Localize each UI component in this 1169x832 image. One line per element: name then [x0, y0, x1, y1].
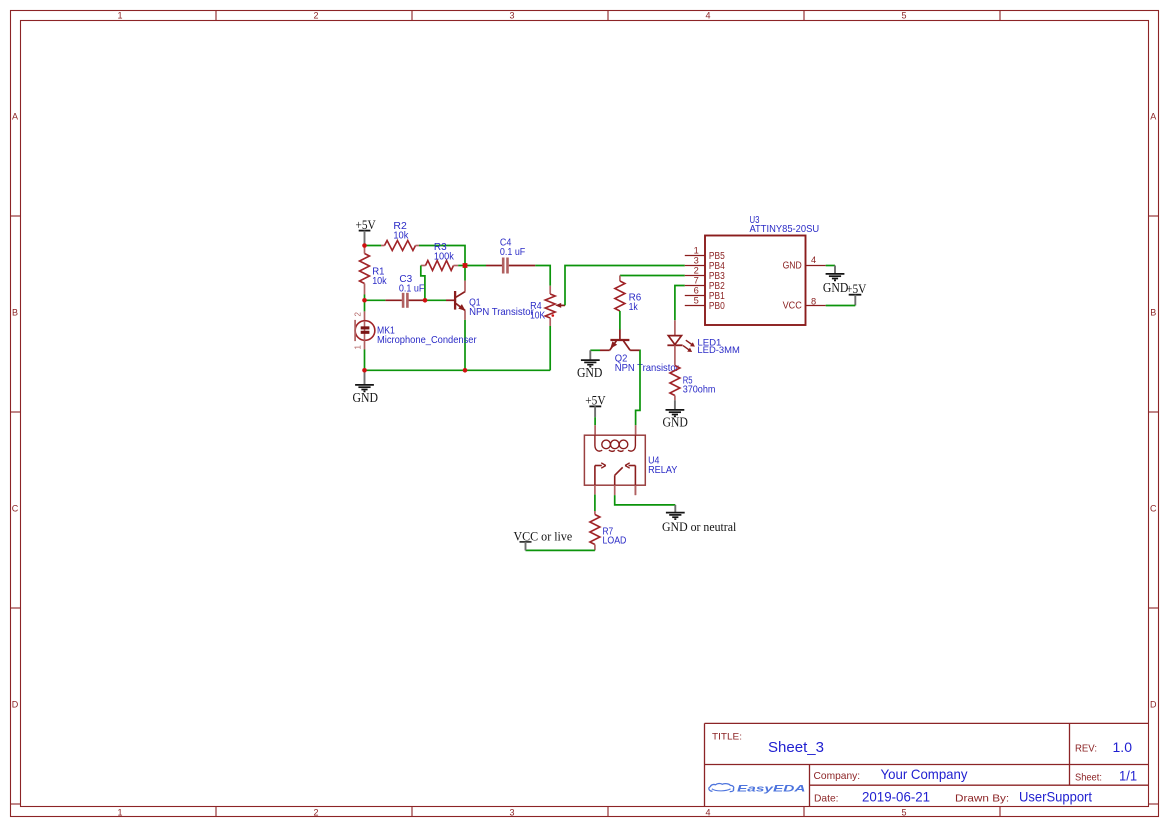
svg-text:NPN Transistor: NPN Transistor [615, 363, 680, 374]
relay U4 [594, 425, 596, 435]
wire R2 to node A (down to junction) [419, 246, 465, 266]
svg-text:2: 2 [694, 266, 699, 276]
wire node B to C3 [365, 299, 386, 301]
svg-text:1k: 1k [629, 302, 639, 313]
wire R6 to Q2 base [619, 311, 621, 330]
resistor R7 [594, 511, 596, 515]
junction rail/Q1 emitter [463, 368, 468, 373]
wire R1 to node B [364, 295, 366, 301]
wire +5V node to R2 [365, 245, 382, 247]
svg-text:3: 3 [694, 256, 699, 266]
wire Q2 emitter to GND [590, 349, 600, 351]
wire R7 to VCC flag [526, 549, 595, 551]
svg-text:RELAY: RELAY [648, 465, 677, 476]
potentiometer R4 [549, 286, 551, 294]
svg-text:GND: GND [662, 415, 688, 430]
U3 pin 3 PB4 [685, 265, 705, 267]
svg-text:3: 3 [509, 10, 514, 20]
svg-text:Your Company: Your Company [881, 767, 968, 782]
svg-text:+5V: +5V [585, 392, 606, 407]
svg-text:10k: 10k [372, 276, 387, 287]
relay right contact with arrow [634, 466, 636, 496]
svg-text:+5V: +5V [355, 217, 376, 232]
wire node C to Q1 base [425, 299, 446, 301]
svg-text:ATTINY85-20SU: ATTINY85-20SU [750, 224, 820, 235]
svg-text:GND: GND [783, 261, 802, 272]
frame column ticks top [215, 11, 217, 21]
U3 pin 7 PB2 [685, 285, 705, 287]
transistor Q2 [619, 330, 621, 340]
svg-text:A: A [1150, 111, 1156, 121]
svg-text:10k: 10k [393, 231, 409, 242]
svg-text:5: 5 [901, 808, 906, 818]
junction +5V/R1/R2 [362, 243, 367, 248]
svg-text:GND or neutral: GND or neutral [662, 519, 737, 534]
svg-text:LED-3MM: LED-3MM [697, 345, 740, 356]
wire U3 PB2 to LED1 [675, 286, 685, 321]
svg-text:REV:: REV: [1075, 742, 1097, 754]
wire relay to R7 [594, 495, 596, 511]
svg-text:VCC: VCC [783, 301, 802, 312]
svg-text:6: 6 [694, 286, 699, 296]
junction node C (C3/R3/Q1 base) [423, 298, 428, 303]
U3 pin 2 PB3 [685, 275, 705, 277]
R4 lower pin dot [552, 314, 555, 317]
frame row ticks right [1149, 215, 1159, 217]
frame column ticks bottom [215, 807, 217, 817]
U3 pin 8 VCC [806, 305, 826, 307]
svg-text:Date:: Date: [814, 793, 839, 805]
svg-text:4: 4 [811, 255, 816, 265]
ground GND (main, under MK1) [364, 370, 366, 384]
frame row ticks left [11, 215, 21, 217]
wire Q2 collector to relay coil [636, 350, 640, 425]
svg-text:370ohm: 370ohm [683, 384, 716, 395]
resistor R6 [619, 276, 621, 282]
wire MK1 to ground rail [364, 350, 366, 371]
svg-text:GND: GND [577, 365, 603, 380]
svg-text:7: 7 [694, 276, 699, 286]
svg-text:D: D [12, 699, 19, 709]
svg-text:100k: 100k [434, 251, 455, 262]
wire U3 VCC pin to +5V [826, 305, 856, 307]
resistor R3 [421, 265, 426, 267]
svg-text:1: 1 [694, 246, 699, 256]
relay coil [595, 435, 636, 451]
svg-text:+5V: +5V [846, 281, 867, 296]
wire Q1 emitter to ground rail [464, 320, 466, 370]
svg-text:10K: 10K [530, 311, 545, 322]
ground GND (R5) [674, 400, 676, 410]
ground GND or neutral [674, 505, 676, 513]
svg-text:A: A [12, 111, 18, 121]
svg-text:2019-06-21: 2019-06-21 [862, 790, 930, 805]
svg-text:Sheet:: Sheet: [1075, 772, 1102, 784]
relay left contact with arrow [594, 466, 596, 486]
wire relay common to GND flag [615, 495, 676, 505]
chip U3 ATTINY85-20SU [705, 236, 806, 326]
wire R3 right to node A [458, 265, 465, 267]
svg-text:2: 2 [313, 808, 318, 818]
svg-text:1: 1 [117, 808, 122, 818]
U3 pin 6 PB1 [685, 295, 705, 297]
svg-text:5: 5 [901, 10, 906, 20]
wire +5V to relay coil pin [594, 417, 596, 425]
svg-text:8: 8 [811, 296, 816, 306]
svg-text:GND: GND [823, 280, 849, 295]
svg-text:UserSupport: UserSupport [1019, 790, 1092, 805]
svg-text:1/1: 1/1 [1119, 769, 1137, 784]
svg-text:1: 1 [117, 10, 122, 20]
relay bottom pins [594, 485, 596, 494]
title block outline [705, 723, 1149, 806]
capacitor C3 [385, 299, 402, 301]
svg-text:B: B [12, 307, 18, 317]
svg-text:C: C [12, 503, 19, 513]
svg-text:D: D [1150, 699, 1157, 709]
svg-text:B: B [1150, 307, 1156, 317]
EasyEDA logo [709, 783, 734, 791]
resistor R2 [381, 245, 385, 247]
svg-text:0.1 uF: 0.1 uF [399, 284, 425, 295]
U3 pin 5 PB0 [685, 305, 705, 307]
U3 pin 4 GND [806, 265, 826, 267]
wire R4 bottom to ground rail [549, 326, 551, 370]
ground GND (U3) [834, 266, 836, 274]
svg-text:LOAD: LOAD [603, 535, 627, 546]
relay switch blade [615, 467, 623, 475]
LED1 emission arrows [686, 340, 693, 345]
svg-text:1: 1 [354, 345, 363, 350]
svg-text:2: 2 [313, 10, 318, 20]
resistor R5 [674, 345, 676, 365]
svg-text:Company:: Company: [814, 770, 861, 782]
svg-text:C: C [1150, 503, 1157, 513]
svg-text:EasyEDA: EasyEDA [737, 784, 806, 795]
wire R3 left jog down to node C [421, 266, 425, 301]
ground GND (Q2 emitter) [589, 350, 591, 360]
junction node A (R2/R3/C4/Q1) square [463, 263, 468, 268]
resistor R1 [364, 246, 366, 254]
wire R4 wiper to U3 PB4 [565, 266, 685, 306]
svg-text:Drawn By:: Drawn By: [955, 793, 1009, 805]
svg-text:0.1 uF: 0.1 uF [500, 247, 525, 258]
svg-text:PB0: PB0 [709, 301, 725, 312]
transistor Q1 [446, 299, 454, 301]
svg-text:TITLE:: TITLE: [712, 732, 742, 743]
microphone MK1 [364, 300, 366, 311]
svg-text:4: 4 [705, 10, 710, 20]
svg-text:5: 5 [694, 296, 699, 306]
capacitor C4 [465, 265, 486, 267]
svg-text:NPN Transistor: NPN Transistor [469, 307, 534, 318]
LED LED1 [674, 320, 676, 335]
wire node A down to Q1 collector [464, 266, 466, 281]
ground rail wire [365, 369, 551, 371]
wire C4 to R4 top [535, 266, 550, 286]
svg-text:2: 2 [354, 312, 363, 317]
svg-text:Microphone_Condenser: Microphone_Condenser [377, 335, 477, 346]
U3 pin 1 PB5 [685, 255, 705, 257]
wire U3 PB3 to R6 [620, 275, 685, 277]
svg-text:3: 3 [509, 808, 514, 818]
R4 wiper arrow [560, 304, 566, 306]
wire U3 GND pin to ground [826, 265, 835, 267]
svg-text:4: 4 [705, 808, 710, 818]
junction node B (R1/C3/MK1) [362, 298, 367, 303]
svg-text:Sheet_3: Sheet_3 [768, 740, 824, 756]
junction rail/MK1 [362, 368, 367, 373]
svg-text:1.0: 1.0 [1113, 740, 1133, 755]
svg-text:GND: GND [353, 390, 379, 405]
